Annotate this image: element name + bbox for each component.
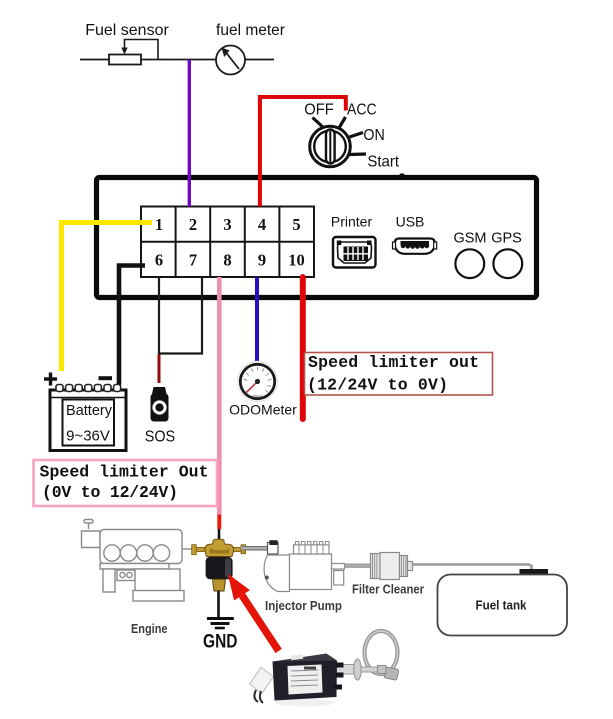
svg-text:1: 1 [155, 215, 163, 234]
svg-text:7: 7 [189, 250, 197, 269]
svg-text:4: 4 [258, 215, 266, 234]
svg-text:ACC: ACC [347, 102, 377, 119]
svg-text:OFF: OFF [304, 102, 334, 119]
svg-text:USB: USB [396, 214, 425, 230]
svg-text:GSM: GSM [453, 231, 486, 247]
svg-text:Injector Pump: Injector Pump [265, 598, 342, 613]
svg-text:GPS: GPS [491, 231, 522, 247]
svg-text:ON: ON [363, 127, 384, 144]
svg-text:KM/H: KM/H [253, 394, 263, 399]
svg-text:Printer: Printer [331, 214, 373, 230]
svg-text:(12/24V to 0V): (12/24V to 0V) [307, 376, 448, 395]
svg-text:9~36V: 9~36V [66, 428, 110, 445]
svg-text:Fuel tank: Fuel tank [476, 599, 527, 613]
svg-text:Filter Cleaner: Filter Cleaner [352, 582, 424, 597]
svg-text:Battery: Battery [66, 403, 113, 419]
svg-text:3: 3 [223, 215, 231, 234]
svg-text:Speed limiter out: Speed limiter out [308, 353, 479, 372]
svg-text:6: 6 [155, 250, 163, 269]
svg-text:8: 8 [223, 250, 231, 269]
svg-text:Speed limiter Out: Speed limiter Out [40, 463, 209, 482]
svg-text:SOS: SOS [145, 429, 176, 446]
svg-text:fuel meter: fuel meter [216, 22, 285, 39]
svg-text:10: 10 [288, 250, 305, 269]
svg-text:(0V to 12/24V): (0V to 12/24V) [42, 483, 178, 502]
svg-text:9: 9 [258, 250, 266, 269]
svg-text:Start: Start [367, 154, 399, 171]
svg-text:ODOMeter: ODOMeter [229, 402, 297, 418]
svg-text:GND: GND [203, 632, 238, 653]
svg-text:2: 2 [189, 215, 197, 234]
svg-text:Engine: Engine [131, 622, 168, 636]
svg-text:5: 5 [292, 215, 300, 234]
svg-text:Fuel sensor: Fuel sensor [85, 22, 169, 39]
